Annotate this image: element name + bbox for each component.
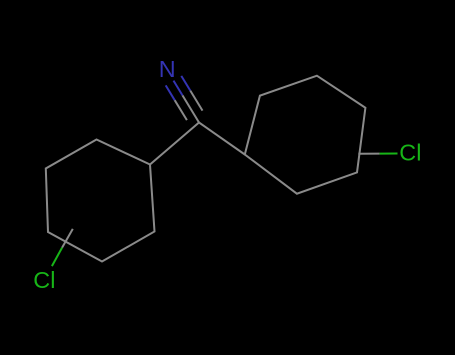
svg-text:Cl: Cl xyxy=(399,140,421,166)
svg-text:Cl: Cl xyxy=(33,267,55,293)
svg-text:N: N xyxy=(159,56,176,82)
